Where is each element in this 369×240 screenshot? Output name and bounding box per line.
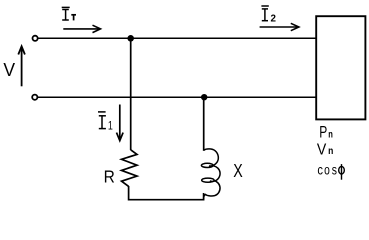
load box (316, 16, 365, 119)
label I_2 (with overbar and subscript 2) (261, 6, 268, 21)
terminal top (33, 36, 38, 41)
arrow I_1 (downward) (117, 105, 124, 141)
wire from top junction down to resistor (crosses bottom wire) (130, 38, 132, 150)
svg-text:V: V (317, 141, 327, 158)
junction node top (127, 35, 134, 42)
svg-text:c: c (317, 162, 323, 178)
svg-text:P: P (319, 124, 327, 142)
resistor R (zigzag) (122, 150, 138, 187)
arrow I_2 (rightward) (260, 23, 299, 30)
inductor X (coil with loops) (201, 149, 220, 199)
svg-text:1: 1 (108, 118, 113, 132)
svg-text:R: R (104, 167, 115, 187)
label I_T (with overbar and subscript T) (62, 7, 76, 20)
arrow I_T (rightward) (63, 25, 100, 32)
arrow V (upward) (18, 46, 25, 86)
svg-text:s: s (332, 162, 337, 178)
svg-text:n: n (328, 130, 333, 141)
wire from bottom junction down to inductor (203, 97, 205, 151)
top wire (38, 37, 316, 39)
svg-text:2: 2 (271, 13, 277, 24)
bottom wire (37, 96, 316, 98)
svg-text:o: o (324, 162, 330, 178)
bottom connector wire (R bottom to X bottom) (129, 186, 204, 200)
terminal bottom (32, 95, 37, 100)
label I_1 (with overbar and subscript 1) (98, 112, 106, 129)
junction node bottom (201, 94, 207, 100)
svg-text:V: V (3, 60, 15, 80)
svg-text:X: X (233, 161, 243, 181)
svg-text:n: n (328, 146, 333, 157)
